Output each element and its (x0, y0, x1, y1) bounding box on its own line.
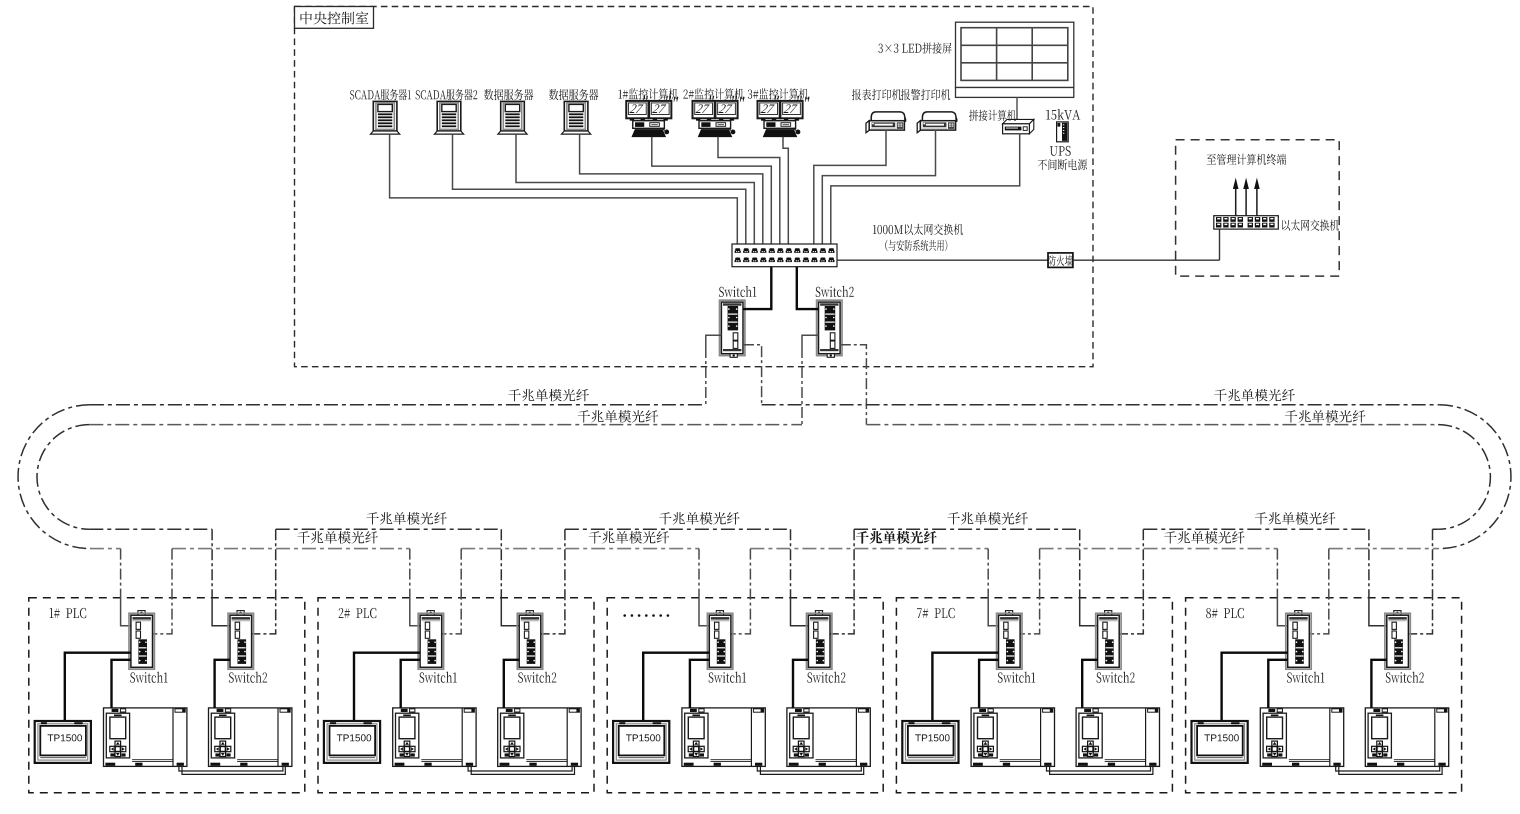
workstation 2#监控计算机 (693, 101, 738, 137)
wire rack2 to Switch2 (1371, 660, 1386, 708)
PLC box 3 dashed boundary (607, 598, 883, 793)
box3 PLC rack 1 (682, 708, 765, 767)
fiber drop CR Switch1 right (743, 345, 762, 405)
inner fiber ring right curve (1438, 425, 1490, 530)
PLC box 5 dashed boundary (1186, 598, 1462, 793)
arrow to management terminals (1256, 186, 1258, 216)
fiber drop box2 Switch1 left (409, 549, 411, 598)
outer fiber ring left curve (18, 405, 90, 549)
control room dashed boundary 中央控制室 (295, 7, 1094, 367)
main switch 1000M以太网交换机 (732, 244, 837, 267)
box5 Switch1 (1286, 611, 1311, 670)
box4 Switch1 (997, 611, 1022, 670)
fiber drop box3 Switch1 right (731, 549, 751, 634)
fiber drop CR Switch2 left (802, 335, 819, 347)
management ethernet switch 以太网交换机 (1214, 216, 1279, 229)
PLC box 1 dashed boundary (29, 598, 305, 793)
fiber drop box3 Switch1 left (698, 549, 700, 598)
box3 Switch2 (807, 611, 832, 670)
box4 PLC rack 1 (971, 708, 1054, 767)
wire rack1 to rack2 bus (179, 766, 285, 774)
wire rack1 to Switch1 (112, 660, 131, 708)
wire firewall to management switch (1073, 259, 1220, 261)
wire printer1 to switch (814, 130, 886, 244)
box2 PLC rack 2 (498, 708, 581, 767)
wire rack1 to Switch1 (401, 660, 420, 708)
wire Switch2 to main switch (797, 267, 819, 309)
outer fiber ring right curve (1439, 405, 1511, 549)
box4 Switch2 (1096, 611, 1121, 670)
fiber drop box2 Switch1 right (442, 549, 462, 634)
fiber label between PLC boxes lower (589, 531, 670, 544)
wire server4 to switch (580, 134, 763, 244)
box2 HMI panel TP1500 (324, 721, 380, 763)
wire server3 to switch (516, 134, 754, 244)
box5 PLC rack 1 (1260, 708, 1343, 767)
management box 至管理计算机终端 (1176, 140, 1340, 276)
inner fiber ring left curve (37, 425, 89, 530)
wire TP1500 to Switch1 (65, 653, 131, 721)
fiber drop box5 Switch2 right (1408, 529, 1432, 634)
wire video computer to switch (831, 134, 1020, 244)
wire workstation2 to switch (718, 137, 780, 244)
printer 报表打印机 (866, 112, 906, 133)
inner fiber ring bottom (89, 528, 1438, 530)
wire printer2 to switch (822, 130, 935, 244)
wire rack1 to rack2 bus (757, 766, 863, 774)
wire rack1 to rack2 bus (1336, 766, 1442, 774)
wire rack2 to Switch2 (215, 660, 230, 708)
fiber drop box1 Switch2 right (252, 529, 276, 634)
wire workstation3 to switch (783, 137, 788, 244)
wire rack2 to Switch2 (1082, 660, 1097, 708)
wire TP1500 to Switch1 (932, 653, 998, 721)
control room Switch2 (817, 300, 842, 357)
label ....... (623, 614, 626, 617)
LED video wall 3x3 LED拼接屏 (956, 22, 1074, 87)
box1 Switch1 (129, 611, 154, 670)
box5 HMI panel TP1500 (1192, 721, 1248, 763)
control room Switch1 (720, 300, 745, 357)
wire rack2 to Switch2 (793, 660, 808, 708)
inner fiber ring top (89, 424, 1438, 426)
fiber drop box1 Switch1 left (120, 549, 122, 598)
wire server1 to switch (390, 134, 738, 244)
workstation 3#监控计算机 (758, 101, 803, 137)
box5 Switch2 (1385, 611, 1410, 670)
firewall 防火墙 (1048, 253, 1073, 268)
fiber drop box3 Switch2 right (830, 529, 854, 634)
workstation 1#监控计算机 (626, 101, 671, 137)
label 2# PLC (339, 608, 377, 618)
wire rack1 to rack2 bus (468, 766, 574, 774)
fiber drop box2 Switch2 right (541, 529, 565, 634)
wire rack1 to Switch1 (690, 660, 709, 708)
wire rack1 to Switch1 (1268, 660, 1287, 708)
fiber label between PLC boxes lower (1164, 531, 1245, 544)
fiber drop box5 Switch2 left (1368, 529, 1370, 598)
wire rack2 to Switch2 (504, 660, 519, 708)
fiber label between PLC boxes upper (366, 512, 447, 525)
box2 Switch1 (418, 611, 443, 670)
server 数据服务器 (562, 101, 591, 134)
box1 PLC rack 1 (104, 708, 187, 767)
fiber label top right outer (1214, 389, 1295, 402)
label 8# PLC (1206, 608, 1244, 618)
fiber drop box1 Switch2 left (211, 529, 213, 598)
server SCADA服务器2 (434, 101, 463, 134)
fiber drop CR Switch2 right (840, 345, 867, 425)
server SCADA服务器1 (371, 101, 400, 134)
fiber label 千兆单模光纤 top left outer (508, 389, 589, 402)
box5 PLC rack 2 (1365, 708, 1448, 767)
wire server2 to switch (453, 134, 746, 244)
fiber drop box4 Switch1 right (1020, 549, 1040, 634)
wire Switch1 to main switch (743, 267, 771, 309)
fiber label top right inner (1285, 410, 1366, 423)
label 1# PLC (50, 608, 87, 618)
arrow to management terminals (1235, 186, 1237, 216)
fiber drop box5 Switch1 left (1276, 549, 1278, 598)
video-wall computer 拼接计算机 (1003, 119, 1034, 133)
fiber drop box3 Switch2 left (790, 529, 792, 598)
wire workstation1 to switch (652, 137, 772, 244)
wire LED wall to video computer (1016, 97, 1018, 121)
box3 PLC rack 2 (787, 708, 870, 767)
fiber drop box1 Switch1 right (153, 549, 173, 634)
server 数据服务器 (498, 101, 527, 134)
fiber label between PLC boxes upper (1255, 512, 1336, 525)
fiber drop box2 Switch2 left (500, 529, 502, 598)
box2 Switch2 (517, 611, 542, 670)
box1 HMI panel TP1500 (35, 721, 91, 763)
fiber label top left inner (578, 410, 659, 423)
PLC box 2 dashed boundary (318, 598, 594, 793)
PLC box 4 dashed boundary (896, 598, 1172, 793)
wire rack1 to rack2 bus (1047, 766, 1153, 774)
fiber drop box4 Switch2 left (1079, 529, 1081, 598)
box3 HMI panel TP1500 (613, 721, 669, 763)
printer 报警打印机 (917, 112, 957, 133)
box1 Switch2 (228, 611, 253, 670)
fiber label between PLC boxes upper (948, 512, 1029, 525)
outer fiber ring bottom (90, 548, 1439, 550)
box4 HMI panel TP1500 (902, 721, 958, 763)
fiber drop CR Switch1 left (706, 335, 722, 347)
wire switch to firewall (837, 259, 1048, 261)
fiber label between PLC boxes lower (856, 531, 937, 544)
fiber label between PLC boxes lower (297, 531, 378, 544)
control room title box (295, 7, 374, 29)
fiber label between PLC boxes upper (659, 512, 740, 525)
label 7# PLC (917, 608, 955, 618)
UPS 15kVA (1057, 122, 1069, 142)
wire rack1 to Switch1 (979, 660, 998, 708)
fiber drop box5 Switch1 right (1309, 549, 1329, 634)
fiber drop box4 Switch1 left (987, 549, 989, 598)
arrow to management terminals (1245, 186, 1247, 216)
wire TP1500 to Switch1 (643, 653, 709, 721)
fiber drop box4 Switch2 right (1119, 529, 1143, 634)
wire TP1500 to Switch1 (1222, 653, 1288, 721)
wire TP1500 to Switch1 (354, 653, 420, 721)
box3 Switch1 (707, 611, 732, 670)
box4 PLC rack 2 (1076, 708, 1159, 767)
box2 PLC rack 1 (393, 708, 476, 767)
outer fiber ring top (90, 404, 1439, 406)
box1 PLC rack 2 (209, 708, 292, 767)
